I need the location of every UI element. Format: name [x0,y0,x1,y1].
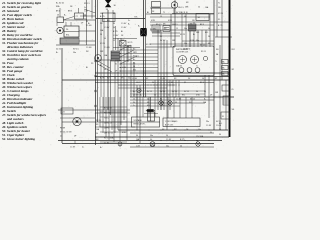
svg-text:B+: B+ [64,15,66,17]
svg-text:50: 50 [152,82,154,84]
svg-text:J 2/8: J 2/8 [190,40,194,42]
svg-text:DF: DF [104,69,106,71]
svg-text:D+: D+ [84,7,86,9]
svg-text:SV 2.5: SV 2.5 [150,145,155,147]
svg-text:BL: BL [86,67,88,69]
svg-text:B 275 12V: B 275 12V [165,124,174,126]
svg-text:W2: W2 [174,129,177,131]
svg-text:2.5 GN: 2.5 GN [133,95,139,97]
svg-text:RD 1.5: RD 1.5 [156,24,161,26]
svg-text:BL: BL [121,31,123,33]
svg-text:VO 25: VO 25 [180,34,185,36]
svg-text:15: 15 [176,28,178,30]
svg-text:BR 6: BR 6 [200,82,204,84]
svg-text:31: 31 [160,36,162,38]
svg-text:24: 24 [63,112,65,114]
svg-text:B+: B+ [133,91,135,93]
svg-text:54a: 54a [206,121,209,123]
svg-text:GN 1.5: GN 1.5 [178,7,184,9]
svg-text:50: 50 [219,129,221,131]
svg-text:54: 54 [198,7,200,9]
svg-text:D+: D+ [82,147,84,149]
svg-text:W2: W2 [232,69,235,71]
svg-text:J 2/8: J 2/8 [115,60,119,62]
svg-text:1.5 SV: 1.5 SV [121,23,127,25]
svg-text:SV 2.5: SV 2.5 [216,121,221,123]
svg-text:GN 1.5: GN 1.5 [161,105,166,107]
svg-text:15: 15 [113,40,115,42]
svg-text:30: 30 [196,91,198,93]
svg-text:B+: B+ [193,34,195,36]
svg-text:TL: TL [196,66,198,68]
svg-text:EXL: EXL [107,20,110,22]
svg-text:31: 31 [218,19,220,21]
svg-text:VO 25: VO 25 [100,43,105,45]
svg-text:B 275: B 275 [100,78,105,80]
svg-text:RD 1.5: RD 1.5 [232,49,236,51]
svg-text:30: 30 [210,132,212,134]
svg-text:DF: DF [121,35,123,37]
svg-text:50 W2 30: 50 W2 30 [183,49,190,51]
svg-text:15 F6: 15 F6 [104,128,109,130]
svg-text:J 2/8 DYNAMO: J 2/8 DYNAMO [165,120,178,123]
svg-text:23: 23 [57,15,59,17]
svg-text:DF: DF [188,78,190,80]
svg-text:VO 25: VO 25 [218,13,223,15]
svg-text:35A 58L: 35A 58L [176,65,182,68]
svg-text:W2: W2 [107,78,110,80]
svg-text:1.5 SV: 1.5 SV [168,82,174,84]
svg-text:1.5 SV: 1.5 SV [121,27,127,29]
svg-text:2.5 GN: 2.5 GN [150,28,156,30]
svg-text:2.5 GN: 2.5 GN [104,47,110,49]
svg-text:2.5 GN: 2.5 GN [216,125,222,127]
svg-text:54a: 54a [150,135,153,137]
svg-text:EXL: EXL [205,32,208,34]
svg-text:F6: F6 [204,91,206,93]
svg-text:1.5 SV: 1.5 SV [166,139,172,141]
svg-text:2.5 GN: 2.5 GN [86,25,92,27]
svg-text:RD 1.5: RD 1.5 [84,3,90,5]
svg-text:B 275: B 275 [113,31,118,33]
svg-text:GL: GL [208,28,210,30]
svg-text:BL: BL [100,65,102,67]
svg-text:DF: DF [210,95,212,97]
svg-text:22 21: 22 21 [56,49,62,51]
svg-text:58L: 58L [218,7,221,9]
svg-text:SV 2.5: SV 2.5 [190,99,195,101]
svg-text:54a: 54a [128,78,131,80]
svg-text:VOLTAGE: VOLTAGE [134,119,143,122]
svg-text:SV 2.5: SV 2.5 [160,91,165,93]
svg-text:B 275: B 275 [180,139,184,141]
svg-text:50: 50 [154,95,156,97]
svg-text:31: 31 [222,116,224,118]
svg-text:D+: D+ [133,105,135,107]
svg-text:BR 6: BR 6 [68,11,72,13]
svg-text:VO 25 2.5 GN: VO 25 2.5 GN [60,132,72,134]
svg-text:54: 54 [147,99,149,101]
svg-text:15: 15 [160,16,162,18]
svg-text:EXL: EXL [147,105,150,107]
svg-text:54a: 54a [166,145,169,147]
svg-text:J 2/8: J 2/8 [84,11,88,13]
svg-text:B+: B+ [140,95,142,97]
svg-text:RD 1.5 35A: RD 1.5 35A [104,137,114,140]
svg-text:54: 54 [100,34,102,36]
svg-text:J 2/8: J 2/8 [122,67,126,69]
svg-text:1.5 SV: 1.5 SV [176,99,182,101]
svg-text:1.5 SV: 1.5 SV [113,35,119,37]
svg-text:54a: 54a [198,129,201,131]
svg-text:1.5 SV: 1.5 SV [160,78,166,80]
svg-text:EXL: EXL [66,34,69,36]
svg-text:SV 2.5: SV 2.5 [172,91,177,93]
svg-text:B 275: B 275 [218,25,223,27]
svg-text:54a: 54a [73,52,76,54]
svg-text:12V 60A: 12V 60A [196,135,204,138]
svg-text:2.5 GN: 2.5 GN [86,47,92,49]
svg-text:W2: W2 [189,102,192,104]
svg-text:1.5 SV: 1.5 SV [206,125,212,127]
svg-text:TL D+: TL D+ [104,118,109,120]
svg-text:REGULATOR: REGULATOR [134,123,146,126]
svg-text:BL: BL [147,12,149,14]
svg-text:30: 30 [175,102,177,104]
svg-text:B+: B+ [128,24,130,26]
svg-text:J 2/8: J 2/8 [136,145,140,147]
svg-text:D+: D+ [128,20,130,22]
svg-text:W2: W2 [100,23,103,25]
svg-text:30: 30 [113,23,115,25]
svg-text:W2: W2 [133,70,136,72]
svg-text:58L: 58L [232,109,235,111]
svg-text:52. Glove locker lighting: 52. Glove locker lighting [2,137,35,141]
svg-text:DF: DF [208,36,210,38]
svg-text:VO 25: VO 25 [96,120,101,122]
svg-text:D+: D+ [60,136,62,138]
svg-text:54 RD 1.5: 54 RD 1.5 [104,123,112,125]
svg-text:B+: B+ [204,99,206,101]
svg-text:BL VO 25: BL VO 25 [104,108,112,110]
svg-text:30: 30 [133,66,135,68]
svg-text:SV 2.5: SV 2.5 [160,40,165,42]
svg-text:B+: B+ [100,147,102,149]
svg-text:F6 6 RD: F6 6 RD [104,113,111,115]
svg-text:GN 1.5: GN 1.5 [136,82,141,84]
svg-text:31: 31 [115,64,117,66]
svg-text:15: 15 [114,78,116,80]
svg-text:VO 25: VO 25 [146,44,151,46]
svg-text:1.5 SV: 1.5 SV [70,147,76,149]
svg-text:F6: F6 [160,99,162,101]
svg-text:BL 31 30: BL 31 30 [181,12,188,14]
svg-text:EXL: EXL [219,123,222,125]
svg-text:D+: D+ [168,95,170,97]
svg-text:F6: F6 [136,135,138,137]
svg-text:CLUSTER 12V: CLUSTER 12V [176,52,189,54]
svg-text:K5: K5 [232,89,234,91]
svg-text:SV 2.5: SV 2.5 [184,91,189,93]
svg-text:GL: GL [150,139,152,141]
svg-text:58R VO 25: 58R VO 25 [104,133,113,135]
svg-text:TL: TL [163,12,165,14]
svg-text:D+ K5: D+ K5 [104,143,109,145]
svg-text:EXL: EXL [182,95,185,97]
svg-text:58L: 58L [192,20,195,22]
svg-text:DF: DF [152,11,154,13]
svg-text:BR 6: BR 6 [56,11,60,13]
svg-text:W2: W2 [128,47,131,49]
svg-text:K5: K5 [86,21,88,23]
svg-text:54: 54 [202,78,204,80]
svg-text:RD 1.5: RD 1.5 [201,51,206,53]
svg-text:15: 15 [133,99,135,101]
svg-text:B+: B+ [138,26,140,28]
svg-text:1.5 SV: 1.5 SV [104,27,110,29]
svg-text:DF: DF [186,129,188,131]
svg-text:GL: GL [184,16,186,18]
svg-text:54: 54 [104,38,106,40]
svg-text:EXL: EXL [135,17,138,19]
svg-text:DF: DF [115,71,117,73]
svg-text:F6 SR: F6 SR [60,128,66,130]
svg-text:F6: F6 [219,134,221,136]
svg-text:B+: B+ [56,52,58,54]
svg-text:36: 36 [106,9,108,11]
svg-text:SV 2.5: SV 2.5 [147,91,152,93]
svg-text:TL: TL [218,3,220,5]
svg-text:GN 1.5: GN 1.5 [172,24,178,26]
svg-text:30: 30 [133,102,135,104]
svg-text:TL: TL [215,61,217,63]
